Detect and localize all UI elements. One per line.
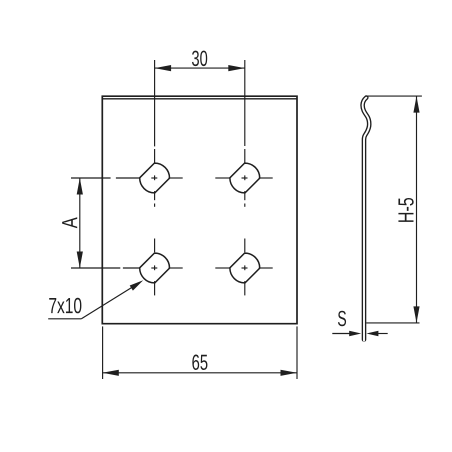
hole top-left	[140, 163, 170, 193]
leader line 7x10	[48, 318, 81, 320]
centerline horizontal bottom-left hole (also ext line of dim A)	[71, 267, 183, 269]
side view strip profile	[363, 98, 370, 340]
centerline horizontal bottom-right hole	[215, 267, 272, 269]
text A	[62, 217, 77, 228]
plate bend line (top fold)	[102, 98, 297, 100]
hole bottom-left	[140, 253, 170, 283]
text H-5	[398, 198, 413, 222]
arrowhead 65 left	[102, 370, 119, 376]
dimension line 65 (bottom)	[102, 372, 297, 374]
centerline vertical top-left hole (also ext line of dim 30)	[154, 60, 156, 207]
text 7x10	[49, 298, 81, 314]
centerline horizontal top-left hole (also ext line of dim A)	[71, 177, 183, 179]
text 65	[192, 355, 207, 371]
extension line 65 right	[296, 326, 298, 379]
dimension line 30 (top)	[155, 67, 245, 69]
centerline vertical top-right hole (also ext line of dim 30)	[244, 60, 246, 207]
dimension line H-5 (right)	[416, 96, 418, 323]
plate outline (front view)	[102, 96, 297, 324]
arrowhead 65 right	[281, 370, 298, 376]
arrowhead S right	[366, 331, 378, 336]
hole bottom-right	[230, 253, 260, 283]
text S	[338, 311, 346, 327]
extension line H-5 top	[365, 95, 422, 97]
arrowhead H-5 top	[413, 96, 419, 113]
arrowhead A bottom	[77, 252, 83, 269]
arrowhead leader 7x10	[130, 280, 144, 290]
dimension line A (left)	[79, 178, 81, 268]
centerline vertical bottom-left hole	[154, 239, 156, 296]
arrowhead H-5 bottom	[413, 306, 419, 323]
dimension S arrow tails	[332, 333, 349, 335]
extension line 65 left	[102, 326, 104, 379]
arrowhead 30 right	[228, 65, 245, 71]
arrowhead S left	[349, 331, 361, 336]
extension line H-5 bottom	[366, 322, 419, 324]
arrowhead A top	[77, 178, 83, 195]
text 30	[192, 51, 207, 67]
hole top-right	[230, 163, 260, 193]
centerline horizontal top-right hole	[215, 177, 272, 179]
centerline vertical bottom-right hole	[244, 239, 246, 296]
arrowhead 30 left	[155, 65, 172, 71]
